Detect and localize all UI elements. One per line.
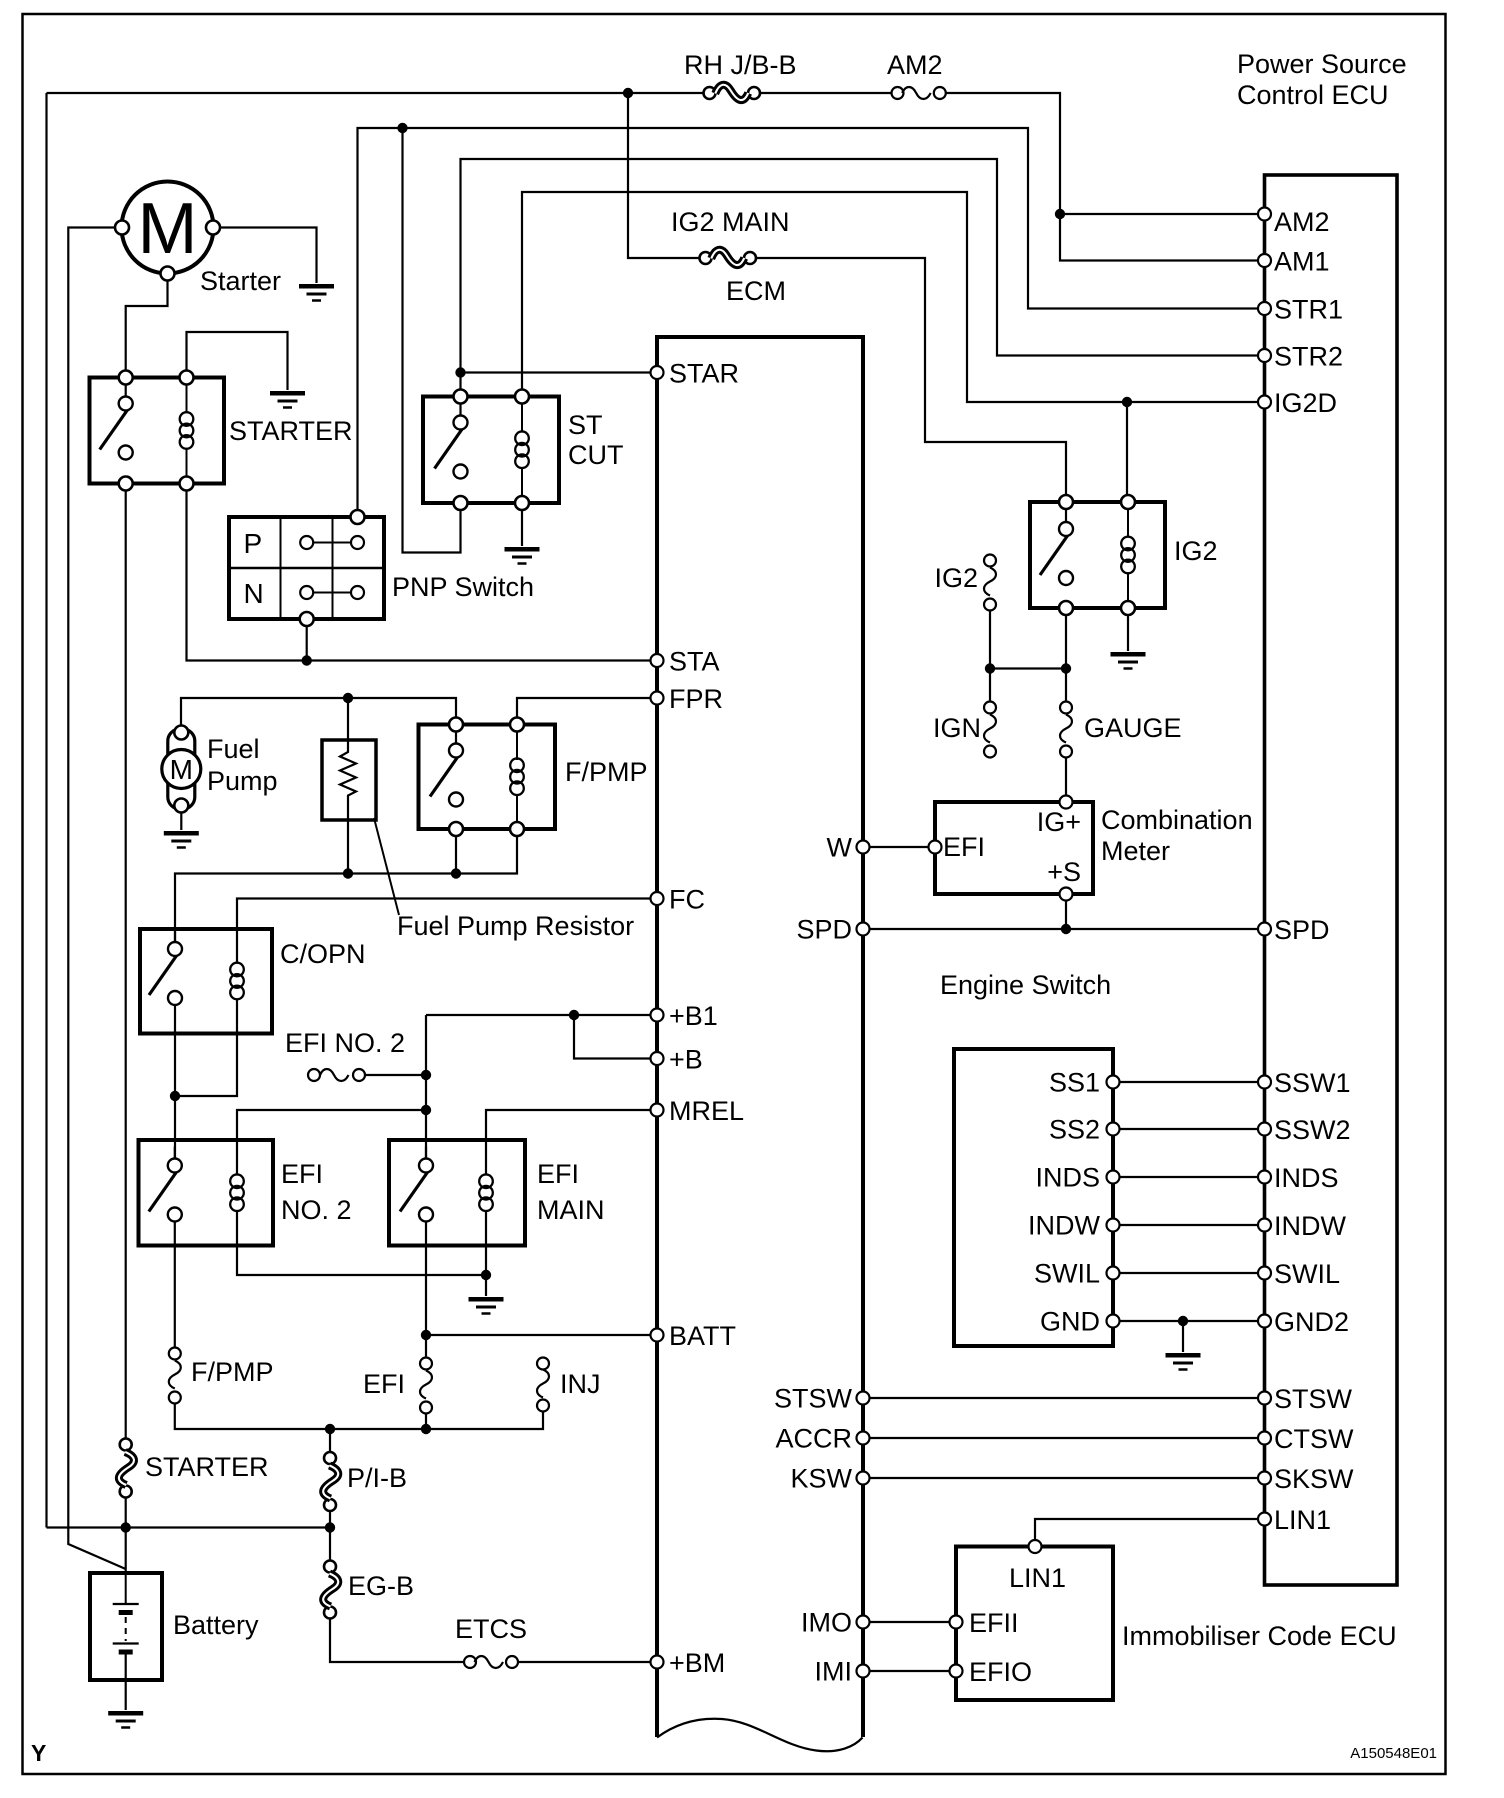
wire KSW-SKSW net	[870, 1477, 1259, 1479]
svg-text:STAR: STAR	[669, 359, 739, 389]
ECM pin W	[857, 841, 870, 854]
wire engine switch INDS to ECU	[1120, 1176, 1259, 1178]
wire STAR	[461, 371, 651, 373]
svg-text:BATT: BATT	[669, 1321, 736, 1351]
ECM pin IMI	[857, 1665, 870, 1678]
svg-text:+B: +B	[669, 1045, 703, 1075]
immobiliser pin LIN1	[1029, 1540, 1042, 1553]
ECU pin SKSW	[1258, 1472, 1271, 1485]
junction bus1527 EG-B	[325, 1522, 335, 1532]
wire between RH J/B-B and AM2 fuse	[761, 92, 892, 94]
ST CUT relay coil	[515, 431, 529, 468]
svg-text:STARTER: STARTER	[229, 416, 353, 446]
svg-text:EG-B: EG-B	[348, 1571, 414, 1601]
junction STR1/ST CUT branch	[397, 123, 407, 133]
wire EG-B to ETCS fuse	[330, 1619, 464, 1662]
ECU pin INDS	[1258, 1171, 1271, 1184]
wire battery negative to ground	[125, 1652, 127, 1710]
IG2 coil stub top	[1127, 509, 1129, 538]
svg-text:C/OPN: C/OPN	[280, 939, 366, 969]
fuse GAUGE	[1060, 702, 1072, 758]
svg-text:AM2: AM2	[1274, 207, 1330, 237]
svg-text:STSW: STSW	[1274, 1384, 1353, 1414]
STARTER relay coil	[180, 412, 194, 449]
ST CUT coil stub bottom	[521, 467, 523, 496]
svg-text:KSW: KSW	[790, 1464, 852, 1494]
ECU pin STSW	[1258, 1392, 1271, 1405]
junction PNP/STA	[302, 655, 312, 665]
STARTER relay terminal bottom-left	[119, 477, 133, 491]
wire F/PMP switch bottom to bus	[455, 836, 457, 874]
wire crossover IG2-GAUGE	[990, 667, 1066, 669]
junction C/OPN outputs	[170, 1091, 180, 1101]
ECU pin INDW	[1258, 1219, 1271, 1232]
svg-text:IG2 MAIN: IG2 MAIN	[671, 207, 790, 237]
svg-text:Battery: Battery	[173, 1610, 259, 1640]
ST CUT terminal top-left	[454, 390, 468, 404]
wire MREL left segment to EFI NO.2 coil	[237, 1110, 426, 1176]
svg-text:Starter: Starter	[200, 266, 281, 296]
wire P/I-B link top to bus1429	[329, 1429, 331, 1452]
wire STR1 net	[358, 128, 1259, 510]
relay STARTER box	[90, 378, 225, 484]
ECU pin AM1	[1258, 254, 1271, 267]
wire FPR right segment (F-PMP coil to ECM FPR)	[517, 698, 651, 718]
svg-text:SSW2: SSW2	[1274, 1115, 1351, 1145]
svg-text:AM2: AM2	[887, 50, 943, 80]
wire +B net	[574, 1015, 651, 1059]
wire +B1 net	[426, 1014, 651, 1016]
junction bus1429 EFI fuse	[421, 1424, 431, 1434]
ST CUT switch contact	[435, 404, 468, 479]
ECM pin +BM	[651, 1656, 664, 1669]
svg-text:Engine Switch: Engine Switch	[940, 970, 1111, 1000]
svg-text:SKSW: SKSW	[1274, 1464, 1354, 1494]
wire AM2 fuse to AM1 pin	[946, 93, 1258, 261]
wire IG2 MAIN feed	[628, 93, 700, 258]
EFI NO.2 relay coil	[230, 1174, 244, 1211]
fuse IG2	[984, 555, 996, 611]
F/PMP terminal top-left	[449, 718, 463, 732]
wire P/I-B to EG-B	[329, 1512, 331, 1561]
F/PMP relay coil	[510, 758, 524, 795]
C/OPN switch contact	[149, 930, 182, 1005]
svg-text:SSW1: SSW1	[1274, 1068, 1351, 1098]
battery cell plate long 2	[113, 1642, 139, 1644]
wire IG2 fuse to IGN fuse	[989, 611, 991, 702]
STARTER relay coil stub top	[186, 385, 188, 414]
svg-text:STSW: STSW	[774, 1384, 853, 1414]
svg-text:MAIN: MAIN	[537, 1195, 605, 1225]
wire starter motor to ground	[220, 228, 317, 284]
fuse F/PMP	[169, 1348, 181, 1404]
ground STARTER relay	[270, 393, 305, 407]
ground EFI MAIN coil	[469, 1299, 504, 1313]
ECU pin IG2D	[1258, 396, 1271, 409]
wire engine switch SS2 to ECU	[1120, 1128, 1259, 1130]
junction bus1429 P/I-B	[325, 1424, 335, 1434]
battery cell plate short 1	[119, 1610, 133, 1615]
ground starter motor	[299, 286, 334, 300]
svg-text:CUT: CUT	[568, 440, 624, 470]
wire IMO to EFII	[870, 1621, 950, 1623]
PNP switch inner dividers	[229, 517, 384, 619]
wire IG2 MAIN to IG2 relay	[757, 258, 1067, 495]
wire LIN1 net	[1035, 1519, 1258, 1540]
wire starter motor to battery	[68, 228, 125, 1570]
ECM pin BATT	[651, 1329, 664, 1342]
wire F/PMP fuse to bus1429	[175, 1404, 543, 1430]
svg-text:EFI: EFI	[537, 1159, 579, 1189]
fuse IGN	[984, 702, 996, 758]
svg-text:MREL: MREL	[669, 1096, 744, 1126]
wire fuel pump control bus	[175, 836, 517, 949]
junction AM2 branch	[1055, 209, 1065, 219]
svg-text:IG2: IG2	[1174, 536, 1218, 566]
svg-text:M: M	[138, 189, 198, 269]
junction IG2out/GAUGE	[1061, 663, 1071, 673]
immobiliser code ECU box	[956, 1547, 1113, 1701]
fuse EFI	[420, 1358, 432, 1414]
wire fuel pump to ground	[180, 813, 182, 831]
battery cell plate short 2	[119, 1650, 133, 1655]
engine switch pin INDW	[1107, 1219, 1120, 1232]
svg-text:GND2: GND2	[1274, 1307, 1349, 1337]
svg-text:CTSW: CTSW	[1274, 1424, 1354, 1454]
starter motor left terminal	[115, 221, 129, 235]
junction MREL-left / +B1 vertical	[421, 1105, 431, 1115]
svg-text:INDS: INDS	[1274, 1163, 1339, 1193]
svg-text:LIN1: LIN1	[1009, 1563, 1066, 1593]
ECM pin IMO	[857, 1616, 870, 1629]
svg-text:SPD: SPD	[1274, 915, 1330, 945]
wire C/OPN junction down to EFI NO.2 switch	[174, 1096, 176, 1160]
starter motor bottom terminal	[161, 267, 175, 281]
wire BATT net	[426, 1334, 651, 1336]
svg-text:SS1: SS1	[1049, 1068, 1100, 1098]
ground IG2 relay	[1111, 654, 1146, 668]
IG2 coil stub bottom	[1127, 573, 1129, 602]
relay ST CUT box	[423, 397, 559, 504]
svg-text:+BM: +BM	[669, 1648, 725, 1678]
wire IMI to EFIO	[870, 1670, 950, 1672]
svg-text:INDW: INDW	[1028, 1211, 1100, 1241]
svg-text:Pump: Pump	[207, 766, 278, 796]
PNP P contact left	[300, 536, 313, 549]
PNP switch box	[229, 517, 384, 619]
engine switch pin GND	[1107, 1315, 1120, 1328]
fusible link P/I-B	[323, 1452, 338, 1511]
EFI MAIN relay coil	[479, 1174, 493, 1211]
fusible link RH J/B-B	[704, 85, 761, 100]
battery box	[90, 1573, 162, 1680]
ST CUT coil stub top	[521, 404, 523, 433]
engine switch pin SS2	[1107, 1123, 1120, 1136]
wire engine switch SS1 to ECU	[1120, 1081, 1259, 1083]
fuel pump bottom terminal	[174, 799, 188, 813]
ST CUT terminal bottom-right	[515, 496, 529, 510]
combination meter box	[935, 802, 1093, 894]
wire engine switch SWIL to ECU	[1120, 1272, 1259, 1274]
svg-text:LIN1: LIN1	[1274, 1505, 1331, 1535]
F/PMP switch contact	[430, 732, 463, 807]
wire engine switch INDW to ECU	[1120, 1224, 1259, 1226]
combination meter pin EFI	[929, 841, 942, 854]
fuel pump motor circle	[162, 750, 201, 789]
svg-text:ECM: ECM	[726, 276, 786, 306]
ECM box outline	[657, 337, 863, 1737]
wire EFI MAIN coil bottom to ground	[485, 1211, 487, 1297]
wire meter +S to SPD	[1065, 901, 1067, 930]
ECU pin STR2	[1258, 349, 1271, 362]
svg-text:EFI: EFI	[363, 1369, 405, 1399]
wire IG2D net	[522, 192, 1258, 402]
relay F/PMP box	[419, 725, 556, 830]
combination meter pin IG+	[1060, 796, 1073, 809]
junction relay coil grounds	[481, 1270, 491, 1280]
svg-text:STARTER: STARTER	[145, 1452, 269, 1482]
svg-text:+S: +S	[1047, 857, 1081, 887]
wire battery feed top (y93) left segment	[47, 92, 704, 94]
svg-text:Y: Y	[31, 1740, 46, 1766]
svg-text:FC: FC	[669, 885, 705, 915]
engine switch box	[954, 1049, 1113, 1346]
relay C/OPN box	[140, 929, 272, 1034]
svg-text:P: P	[244, 528, 263, 559]
ECM pin +B	[651, 1052, 664, 1065]
ST CUT terminal bottom-left	[454, 496, 468, 510]
starter motor right terminal	[206, 221, 220, 235]
junction GND ground tap	[1178, 1316, 1188, 1326]
F/PMP coil stub top	[516, 732, 518, 761]
ECU pin SSW2	[1258, 1123, 1271, 1136]
svg-text:ST: ST	[568, 410, 603, 440]
wire IG2 switch bottom to GAUGE fuse	[1065, 615, 1067, 702]
ECM pin KSW	[857, 1472, 870, 1485]
wire EFI fuse to bus1429	[425, 1414, 427, 1430]
wire IG2 coil to ground	[1127, 615, 1129, 651]
ECU pin LIN1	[1258, 1513, 1271, 1526]
wire ST CUT coil to ground	[521, 510, 523, 546]
ground engine switch	[1166, 1355, 1201, 1369]
wire engine switch GND to ground	[1182, 1321, 1184, 1352]
svg-text:GND: GND	[1040, 1307, 1100, 1337]
IG2 terminal top-left	[1059, 495, 1073, 509]
svg-text:SWIL: SWIL	[1274, 1259, 1340, 1289]
PNP top terminal	[351, 510, 365, 524]
IG2 terminal top-right	[1121, 495, 1135, 509]
engine switch pin INDS	[1107, 1171, 1120, 1184]
svg-text:AM1: AM1	[1274, 247, 1330, 277]
PNP P contact right	[351, 536, 364, 549]
starter motor M1 body	[122, 182, 214, 274]
EFI MAIN switch contact	[400, 1147, 433, 1222]
wire starter motor to STARTER relay	[126, 281, 168, 371]
svg-text:IMO: IMO	[801, 1608, 852, 1638]
battery cell plate long 1	[113, 1603, 139, 1605]
svg-text:RH J/B-B: RH J/B-B	[684, 50, 797, 80]
fuse ETCS	[464, 1656, 518, 1668]
ECU pin GND2	[1258, 1315, 1271, 1328]
wire bus1527	[47, 1526, 331, 1528]
svg-text:A150548E01: A150548E01	[1350, 1745, 1437, 1762]
PNP N contact bar	[313, 592, 351, 594]
svg-text:IG2: IG2	[934, 563, 978, 593]
wire resistor feed	[347, 698, 349, 748]
ECM pin STAR	[651, 366, 664, 379]
STARTER relay terminal top-right	[180, 371, 194, 385]
wire battery feed left vertical	[45, 93, 47, 1528]
F/PMP terminal top-right	[510, 718, 524, 732]
ECM box wavy bottom edge	[657, 1719, 863, 1752]
STARTER relay terminal bottom-right	[180, 477, 194, 491]
PNP bottom terminal	[300, 612, 314, 626]
ECM pin +B1	[651, 1009, 664, 1022]
fuel pump resistor callout line	[374, 818, 399, 915]
svg-text:NO. 2: NO. 2	[281, 1195, 352, 1225]
IG2 relay coil	[1121, 537, 1135, 574]
F/PMP terminal bottom-left	[449, 822, 463, 836]
svg-text:INDS: INDS	[1035, 1163, 1100, 1193]
wire STARTER relay to fusible link STARTER	[125, 491, 127, 1439]
svg-text:STA: STA	[669, 647, 720, 677]
fusible link STARTER	[119, 1439, 134, 1498]
fuel pump motor body	[168, 729, 195, 809]
fuel pump top terminal	[174, 726, 188, 740]
junction resistor to bus	[343, 868, 353, 878]
svg-text:PNP Switch: PNP Switch	[392, 572, 534, 602]
fuse AM2	[892, 87, 946, 99]
immobiliser pin EFII	[950, 1616, 963, 1629]
wire IG2D to IG2 relay coil	[1126, 402, 1128, 495]
wire C/OPN coil bottom to junction	[175, 999, 237, 1097]
ground fuel pump	[164, 833, 199, 847]
ECM pin STA	[651, 654, 664, 667]
svg-text:IG+: IG+	[1037, 807, 1081, 837]
wire FPR left segment (fuel pump / resistor / F-PMP switch)	[181, 698, 456, 726]
junction F/PMP switch bus	[451, 868, 461, 878]
svg-text:Combination: Combination	[1101, 805, 1253, 835]
svg-text:Fuel: Fuel	[207, 734, 260, 764]
relay EFI NO.2 box	[139, 1140, 274, 1246]
svg-text:Control ECU: Control ECU	[1237, 80, 1389, 110]
STARTER relay switch contact	[100, 385, 133, 460]
PNP N contact right	[351, 586, 364, 599]
junction STAR branch	[455, 367, 465, 377]
wire EFI MAIN switch to EFI fuse	[425, 1222, 427, 1358]
ground ST CUT	[505, 549, 540, 563]
svg-text:IG2D: IG2D	[1274, 388, 1337, 418]
svg-text:EFIO: EFIO	[969, 1657, 1032, 1687]
wire STSW net	[870, 1397, 1259, 1399]
battery internal top lead	[125, 1573, 127, 1604]
engine switch pin SS1	[1107, 1076, 1120, 1089]
svg-text:INJ: INJ	[560, 1369, 601, 1399]
svg-text:INDW: INDW	[1274, 1211, 1346, 1241]
svg-text:F/PMP: F/PMP	[565, 757, 648, 787]
svg-text:GAUGE: GAUGE	[1084, 713, 1182, 743]
IG2 terminal bottom-right	[1121, 601, 1135, 615]
junction BATT	[421, 1330, 431, 1340]
ECM pin SPD	[857, 923, 870, 936]
wire +B1 vertical to EFI MAIN switch	[425, 1015, 427, 1159]
wire MREL right segment from EFI MAIN coil	[486, 1110, 651, 1176]
junction +B branch	[569, 1010, 579, 1020]
relay IG2 box	[1030, 502, 1165, 608]
wire STARTER relay to STA	[187, 491, 651, 661]
wire W to meter EFI	[870, 846, 929, 848]
junction top feed / IG2 MAIN branch	[623, 88, 633, 98]
junction fuel pump resistor tap	[343, 693, 353, 703]
junction EFI NO.2 fuse / +B1	[421, 1070, 431, 1080]
svg-text:N: N	[244, 578, 264, 609]
ECU pin STR1	[1258, 302, 1271, 315]
wire ACCR-CTSW net	[870, 1437, 1259, 1439]
ECU pin AM2	[1258, 208, 1271, 221]
svg-text:SWIL: SWIL	[1034, 1259, 1100, 1289]
wire PNP bottom terminal to STA	[306, 626, 308, 661]
wire STARTER relay coil to ground	[187, 332, 288, 390]
wire ETCS to +BM	[518, 1661, 651, 1663]
svg-text:EFI: EFI	[943, 832, 985, 862]
wire EFI NO.2 coil bottom to ground bus	[237, 1211, 486, 1276]
svg-text:W: W	[827, 833, 853, 863]
wire GAUGE fuse to IG+ pin	[1065, 758, 1067, 796]
ST CUT terminal top-right	[515, 390, 529, 404]
svg-text:EFI: EFI	[281, 1159, 323, 1189]
ECM pin MREL	[651, 1104, 664, 1117]
IG2 terminal bottom-left	[1059, 601, 1073, 615]
svg-text:ETCS: ETCS	[455, 1614, 527, 1644]
ECU pin SPD	[1258, 923, 1271, 936]
svg-text:IMI: IMI	[815, 1657, 853, 1687]
fuel pump resistor box	[322, 740, 376, 820]
junction +S/SPD	[1061, 924, 1071, 934]
ECM pin STSW	[857, 1392, 870, 1405]
C/OPN relay coil	[230, 963, 244, 1000]
wire engine switch GND to ECU	[1120, 1320, 1259, 1322]
battery internal dashed link	[125, 1617, 127, 1641]
svg-text:SS2: SS2	[1049, 1115, 1100, 1145]
svg-text:IGN: IGN	[933, 713, 981, 743]
svg-text:STR1: STR1	[1274, 295, 1343, 325]
F/PMP terminal bottom-right	[510, 822, 524, 836]
svg-text:Power Source: Power Source	[1237, 49, 1407, 79]
junction battery positive bus	[121, 1522, 131, 1532]
wire EFI NO.2 fuse to junction	[365, 1074, 426, 1076]
svg-text:+B1: +B1	[669, 1001, 718, 1031]
EFI NO.2 switch contact	[149, 1147, 182, 1222]
immobiliser pin EFIO	[950, 1665, 963, 1678]
fusible link EG-B	[323, 1561, 338, 1619]
fuel pump resistor zigzag	[340, 748, 356, 800]
wire SPD net	[870, 928, 1259, 930]
fuse INJ	[537, 1358, 549, 1412]
PNP N contact left	[300, 586, 313, 599]
power source control ECU box	[1265, 175, 1398, 1585]
PNP P contact bar	[313, 542, 351, 544]
svg-text:SPD: SPD	[796, 915, 852, 945]
ECM pin FPR	[651, 692, 664, 705]
svg-text:F/PMP: F/PMP	[191, 1357, 274, 1387]
ECU pin SSW1	[1258, 1076, 1271, 1089]
ground battery	[108, 1713, 143, 1727]
combination meter pin +S	[1060, 888, 1073, 901]
ECM pin ACCR	[857, 1432, 870, 1445]
IG2 switch contact	[1040, 510, 1073, 585]
wire EFI NO.2 switch to F/PMP fuse	[174, 1222, 176, 1348]
svg-text:P/I-B: P/I-B	[347, 1463, 407, 1493]
